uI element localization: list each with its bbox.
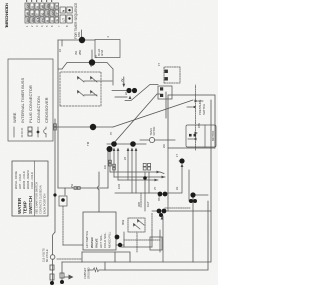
connector pair on bank wire 2 [113,167,116,170]
wire drop x113 [110,172,164,174]
lid contact arrow [161,216,164,220]
wire q horizontal [188,170,190,201]
svg-text:MOTOR: MOTOR [153,126,156,135]
svg-text:P: P [55,12,59,14]
legend box [8,59,53,141]
node Q3 [189,199,193,203]
svg-text:115 VOLTS: 115 VOLTS [42,248,46,262]
svg-text:1Y: 1Y [157,63,161,66]
node B1 [79,37,85,43]
svg-text:WARM - COLD: WARM - COLD [22,171,26,189]
node Q4 [193,199,197,203]
wire pressure stub3 [188,138,193,140]
table row 3 [35,17,39,23]
valve dashed contact box [128,218,145,232]
svg-text:2W: 2W [70,183,74,188]
wire buss jog [82,252,130,262]
ground stem [64,276,69,278]
wire q2 stub [179,160,182,162]
wire mid horizontal [54,119,56,232]
wire mesh dashed y141 [140,193,142,207]
svg-text:2R: 2R [124,157,127,160]
wire valve x38 [121,246,152,248]
relay terminal 2 [165,70,168,73]
svg-text:WATER: WATER [17,197,22,214]
node P3 [157,209,162,214]
svg-text:INTERNAL TIMER BUSS: INTERNAL TIMER BUSS [20,78,25,123]
svg-text:MIXED FILL: MIXED FILL [108,231,112,248]
wire q link 2 [165,210,211,212]
legend buss symbol [21,127,23,137]
small labels [59,32,206,225]
svg-text:CONTACTS CLOSED IN: CONTACTS CLOSED IN [39,185,43,214]
table row numbers [25,25,69,27]
wire pressure stub [187,106,192,108]
connector pair mesh 1 [143,167,146,170]
node M145 [143,176,147,180]
svg-text:SWITCH: SWITCH [202,104,206,115]
wire to switch bank [107,149,109,188]
svg-text:SWITCH: SWITCH [28,195,33,214]
water temp switch title [17,195,33,214]
timer contact c4 arrow [90,90,93,94]
svg-text:BU: BU [30,18,34,22]
water temp switch small text [14,161,47,216]
wire valve out [116,244,124,246]
node V2 [118,243,122,247]
wire relay link [165,92,167,118]
wire L1 rail [62,100,211,262]
tall cell dot 1 [68,17,70,19]
svg-text:LID SWITCH: LID SWITCH [85,231,89,248]
relay terminal 1 [165,77,168,80]
plug prong P2 [60,273,64,278]
svg-text:3Y: 3Y [110,132,113,135]
node C5 [61,198,65,202]
node V1 [115,235,120,240]
contact arrow p3 [193,138,197,141]
svg-text:W: W [40,5,44,8]
wire valve y160 [159,230,161,252]
stub right of node B1 [81,30,83,41]
start switch box [158,86,172,99]
wire valve dashed x45 [124,239,160,241]
svg-text:1R: 1R [59,49,62,52]
wire valve y152 dashed [151,213,153,230]
wire mesh y145 [144,172,146,211]
svg-text:MOTOR: MOTOR [211,131,215,141]
wire valve y124 [123,232,125,247]
dashed link x77 [165,207,190,209]
wire drop x92 [115,192,160,194]
svg-text:TM: TM [86,141,90,146]
svg-text:TEMP: TEMP [23,201,28,214]
wire mesh y149 [148,172,150,193]
motor start relay dashed box [158,67,180,99]
svg-text:3T: 3T [94,54,98,58]
contact arrow a2 [122,84,125,88]
timer contact c1 arrow [77,76,80,80]
wire bank a3 [117,151,119,180]
node T1 [126,88,131,93]
svg-text:BU: BU [45,4,49,8]
valve contact blade 2 [138,220,144,225]
legend plug connector symbol [28,132,32,136]
wire buss top link [81,252,83,262]
arrow bank a2 [113,148,116,152]
wire valve dashed y137 [136,232,138,252]
svg-text:N: N [61,10,65,12]
arrow bank b3 [135,148,138,152]
heater zigzag [93,268,99,272]
table row 7 (tall cells) [60,15,65,23]
svg-text:36B: 36B [137,202,141,207]
motor terminal m2 [194,134,197,137]
motor divider [204,125,206,147]
svg-text:1GY: 1GY [146,201,150,207]
svg-text:2T: 2T [89,63,93,67]
svg-text:1W: 1W [104,165,107,169]
timer motor dashed circle [140,126,175,142]
wire from junction J5 [55,126,113,128]
wire right drop to connector [58,39,95,41]
wire L1 lead [52,259,54,283]
legend wire symbol [13,127,15,137]
timer switch bank A [109,148,120,181]
svg-text:2G: 2G [176,187,179,190]
wire crossing label block [98,172,99,212]
svg-text:WASH - RINSE: WASH - RINSE [14,171,18,189]
wire buss upper [57,258,82,260]
fuse box [50,274,54,280]
table row 6b [55,17,59,23]
arrow bank b1 [127,148,130,152]
valve sub-circuit [121,213,163,262]
legend connection symbol [37,127,39,137]
wire switch common 1 [107,143,146,145]
label block left [83,212,116,250]
arrow drop x113 [157,171,161,174]
label 115 volts 60 cycle [42,248,50,262]
plug prong P1 [50,265,54,270]
table row 4 [40,17,44,23]
wire diagonal long [113,100,193,127]
svg-text:WATER: WATER [90,237,94,248]
table row 8 (tall cells) [67,15,72,23]
node Q1 [179,158,184,163]
wire bank b2 [131,151,133,193]
timer outline polygon [62,63,113,86]
table row 6 [50,17,54,23]
table row 5 [45,17,49,23]
svg-text:LT: LT [61,18,65,22]
svg-text:1BK: 1BK [77,32,81,37]
stub y62 [61,40,63,46]
legend crossover symbol [44,127,46,137]
table row 1 [25,17,29,23]
timer switch bank B [127,148,138,194]
svg-text:CONNECTION: CONNECTION [36,96,41,123]
wire diagonal to motor box [113,94,160,144]
svg-text:W: W [25,12,29,15]
wire bank b3 [135,151,137,193]
timer contact c2 [91,77,97,82]
timer contact c2 arrow [90,76,93,80]
stub right of node B2 [91,50,93,63]
contact arrow a1 [129,96,132,100]
wire valve drop [63,244,83,246]
motor box [166,92,216,148]
timer internal dashed box [58,30,113,106]
table header ticks [26,0,52,2]
wire pressure dashed [195,85,197,150]
svg-text:WIRE: WIRE [12,112,17,123]
timer connection table [25,0,78,39]
connector box wts [59,196,67,206]
svg-text:1BK: 1BK [197,123,201,128]
svg-text:TIMER CONNECTION: TIMER CONNECTION [4,3,9,28]
node P2 [163,192,168,197]
arrow bank a3 [117,148,120,152]
wire to motor y168 [167,148,169,211]
connector pair on bank wire [109,163,112,166]
svg-text:T: T [50,6,54,8]
plug outline [50,255,55,260]
connector pair on left drop [74,187,77,190]
main wires [55,40,211,272]
start switch terminal 2 [160,87,163,90]
node G0 [50,281,54,285]
motor inner winding box [186,125,216,147]
valve contact arrow 1 [133,223,136,227]
wire left drop [58,187,108,189]
water temp switch box [12,161,48,216]
svg-text:2Y: 2Y [153,186,157,190]
wire lid y163 [162,216,164,262]
wire buss link y115 [114,252,116,262]
table cell letters [25,3,65,22]
svg-text:2W: 2W [163,144,166,148]
svg-text:Y: Y [50,20,54,22]
wire timer feed [112,90,129,92]
vertical drops from banks [54,124,211,211]
motor terminal m1 [189,134,192,137]
wire contact feed left [115,96,127,98]
svg-text:GROUND: GROUND [87,267,91,279]
node B2 [89,59,95,65]
svg-text:WARM - WARM: WARM - WARM [26,170,30,189]
timer contact c3 [78,91,84,96]
timer inner wire 3 [58,68,62,70]
node S2 [130,141,136,147]
connector pair mesh 2 [148,167,151,170]
wire top bus [57,40,59,188]
svg-text:3BU: 3BU [158,196,161,201]
wire drop x108 [114,176,165,178]
svg-text:1OR: 1OR [118,184,121,189]
svg-text:2BK: 2BK [78,50,82,55]
wire drop x105 [118,179,158,181]
arrow bank b2 [131,148,134,152]
timer inner wire 1 [84,80,112,82]
arrow drop x108 [162,176,166,179]
arrow drop x105 [155,179,159,182]
wire wts drop [64,188,66,195]
power cord / plug [42,232,91,283]
wire q vertical [193,194,208,196]
wire buss wts dashed [62,206,64,245]
contact arrow p2 [195,100,199,103]
contact arrow p4 [195,132,199,135]
wire drop x74 [152,210,159,212]
svg-text:SEE CHART FOR SWITCH: SEE CHART FOR SWITCH [35,182,39,214]
svg-text:2V: 2V [120,78,124,82]
small connector block top right [95,36,120,58]
wire bank b1 [127,151,129,180]
start switch terminal 1 [160,94,163,97]
node P4 [162,209,167,214]
svg-text:N: N [55,5,59,7]
node T2 [132,88,137,93]
valve contact arrow 2 [137,219,140,223]
timer contact c4 [91,91,97,96]
lid switch box [150,237,162,250]
svg-text:2A: 2A [125,92,128,95]
wire N rail [88,201,208,270]
wire bank a2 [113,151,115,177]
tall cell dot 2 [68,9,70,11]
svg-text:V: V [35,6,39,8]
svg-text:EACH POSITION: EACH POSITION [43,194,47,214]
svg-text:T: T [35,13,39,15]
wire N link y105 [104,262,106,270]
svg-text:GY: GY [35,18,39,22]
svg-text:HOT - COLD: HOT - COLD [18,174,22,189]
wire pressure stub2 [198,100,203,102]
wire contact feed right [123,77,125,84]
svg-text:36W: 36W [122,219,125,225]
svg-text:Y: Y [30,6,34,8]
valve contact blade 1 [134,224,140,229]
pressure switch contacts [187,85,203,150]
node S0 [107,146,113,152]
node L1a [159,213,163,217]
svg-text:CABINET: CABINET [83,267,87,279]
svg-text:60 CYCLE: 60 CYCLE [45,249,49,262]
arrow at Q1 [181,164,184,168]
node Q2 [190,192,195,197]
table row 2 [30,17,34,23]
ground arrow [69,275,74,280]
svg-text:PLUG CONNECTOR: PLUG CONNECTOR [28,85,33,123]
node W1 [53,193,56,196]
node J5 [90,124,96,130]
node S1 [111,141,117,147]
wire bank a1 [109,151,111,172]
connector pair on mid wire [54,127,57,130]
svg-text:W-3A: W-3A [101,49,104,56]
timer inner wire 2 [84,94,97,96]
svg-text:VALVE: VALVE [95,238,99,248]
svg-text:CROSSOVER: CROSSOVER [44,97,49,123]
wire N lead [61,262,63,283]
wire q link 1 [166,167,182,193]
timer contact c1 [78,77,84,82]
wire valve y152 [151,230,153,247]
svg-text:COLD SOL.: COLD SOL. [103,232,107,248]
wire diagonal short [125,85,158,101]
timer contact c3 arrow [77,90,80,94]
svg-text:COLD - COLD: COLD - COLD [30,172,34,189]
svg-text:1T: 1T [176,154,179,157]
node P1 [158,192,163,197]
contact arrow p1 [192,106,196,109]
arrow bank a1 [109,148,112,152]
node G1 [60,280,64,284]
wire lower link [192,197,194,262]
connector block pin labels [98,48,104,56]
